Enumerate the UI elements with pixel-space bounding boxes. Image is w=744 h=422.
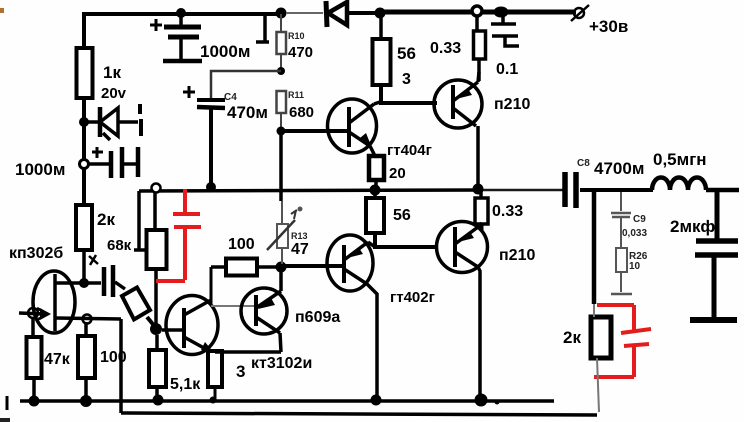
svg-text:п210: п210	[494, 96, 530, 113]
wire п609а base	[211, 305, 256, 307]
svg-text:10: 10	[629, 261, 641, 272]
transistor Q2 кт3102и	[162, 296, 218, 355]
node circle rail left	[152, 184, 161, 193]
svg-text:0,033: 0,033	[622, 228, 647, 239]
inductor L1 0,5мгн	[652, 178, 706, 191]
node dot gnd 3	[210, 397, 217, 404]
svg-text:R13: R13	[291, 231, 308, 241]
svg-text:100: 100	[228, 236, 255, 253]
wire 2к bottom to feedback	[597, 358, 599, 412]
wire 68k top	[153, 192, 157, 231]
wire R1 to node	[82, 98, 86, 124]
svg-text:4700м: 4700м	[594, 159, 644, 178]
node dot R10/R11	[277, 67, 285, 75]
capacitor red C bypass 68к	[156, 189, 201, 281]
capacitor C10 2мкф	[690, 190, 738, 320]
svg-text:0.33: 0.33	[492, 203, 523, 220]
node dot C4 rail	[206, 182, 216, 192]
svg-text:п609а: п609а	[295, 309, 340, 326]
node dot gnd 5,1к	[153, 395, 164, 406]
svg-text:1к: 1к	[103, 63, 121, 82]
wire п609а collector to 3	[215, 350, 281, 354]
svg-text:C4: C4	[224, 92, 237, 103]
diode VD1 zener	[84, 104, 141, 140]
node dot p210 rail	[473, 184, 484, 195]
node circle source	[83, 315, 92, 324]
resistor R11 680	[277, 91, 287, 131]
svg-text:20v: 20v	[101, 85, 127, 102]
svg-text:R10: R10	[288, 31, 305, 41]
svg-text:47к: 47к	[44, 351, 71, 368]
wire top rail left	[84, 14, 281, 48]
svg-text:56: 56	[393, 207, 411, 224]
mid rail	[139, 190, 483, 191]
resistor 2к output	[591, 317, 611, 358]
wire 56 to collector node	[381, 85, 437, 103]
node dot R10 top	[276, 8, 287, 19]
resistor R4 20	[369, 156, 384, 180]
resistor R2 2к	[76, 205, 92, 250]
svg-text:1000м: 1000м	[15, 160, 65, 179]
wire 20 to rail	[374, 180, 378, 190]
resistor R9 slanted	[122, 288, 156, 329]
terminal +30в	[571, 5, 589, 21]
resistor R5 0.33 upper	[475, 16, 479, 31]
wire R2 to drain node	[82, 250, 86, 284]
svg-text:0.1: 0.1	[496, 61, 518, 78]
transistor Q5 п210 upper	[434, 72, 482, 188]
svg-text:3: 3	[402, 71, 411, 88]
resistor R6 68к	[147, 230, 167, 269]
svg-text:470: 470	[288, 44, 313, 61]
resistor 56 lower	[373, 190, 377, 198]
node dot gnd п210	[475, 394, 488, 407]
resistor R10 470	[277, 14, 287, 71]
node dot bias	[276, 262, 287, 273]
resistor 0.33 lower	[479, 190, 483, 198]
transistor Q6 гт402г	[327, 235, 377, 399]
svg-text:гт402г: гт402г	[390, 289, 435, 306]
wire bias to Q6 base	[281, 264, 344, 268]
svg-text:R11: R11	[288, 90, 304, 100]
wire feedback source	[119, 319, 123, 413]
resistor R7 47к	[31, 318, 35, 337]
node dot 20 rail	[370, 185, 381, 196]
capacitor C6 coupling	[84, 255, 125, 297]
node dot gnd 100	[80, 395, 92, 407]
node dot R11 bottom	[277, 127, 286, 136]
node dot base кт3102и	[150, 323, 162, 335]
ground rail	[20, 399, 554, 403]
transistor Q1 кп302б FET	[19, 271, 121, 333]
svg-text:2к: 2к	[563, 328, 581, 347]
resistor R15 5,1к	[155, 335, 159, 350]
capacitor C2 1000м	[88, 147, 138, 178]
wire node to C2 node	[82, 122, 86, 164]
node circle 0.33 top	[472, 6, 482, 16]
resistor R14 3	[208, 351, 222, 387]
wire 68k bottom	[154, 269, 158, 326]
transistor Q7 п210 lower	[437, 222, 488, 400]
capacitor C1 1000м top	[150, 14, 202, 61]
svg-text:47: 47	[291, 241, 309, 258]
capacitor C9 0,033	[611, 192, 631, 248]
transistor Q4 п609а	[241, 271, 287, 352]
stub capacitor mark	[256, 14, 269, 42]
wire bootstrap to C4	[211, 71, 281, 99]
svg-text:5,1к: 5,1к	[170, 376, 201, 393]
svg-text:0.33: 0.33	[430, 40, 461, 57]
wire C2 node to R2	[82, 168, 86, 206]
wire L1 right	[706, 188, 739, 193]
node dot D1	[79, 117, 89, 127]
node dot C1	[176, 8, 186, 18]
svg-text:кт3102и: кт3102и	[251, 355, 312, 372]
node circle C2	[80, 160, 89, 169]
wire R11 node down across rail	[279, 131, 283, 201]
resistor R3 56/3 upper	[379, 16, 383, 39]
svg-text:0,5мгн: 0,5мгн	[653, 150, 707, 169]
svg-text:2к: 2к	[97, 210, 115, 229]
svg-text:C8: C8	[577, 158, 590, 169]
wire top rail right	[380, 10, 576, 15]
node dot drain	[79, 278, 89, 288]
svg-text:56: 56	[397, 44, 416, 63]
svg-text:C9: C9	[633, 214, 646, 225]
capacitor C5 0.1	[491, 16, 519, 46]
wire base Q3	[281, 129, 349, 133]
node dot gnd гт402г	[371, 395, 382, 406]
resistor R12 100 bias	[226, 259, 257, 276]
wire 68k left branch	[134, 191, 146, 250]
svg-text:3: 3	[236, 362, 245, 381]
resistor R8 100	[84, 322, 88, 336]
red thermistor bypass output 2к	[594, 305, 651, 377]
wire collector кт3102и up	[210, 267, 213, 305]
svg-text:100: 100	[100, 349, 127, 366]
thermistor R13 47	[267, 208, 302, 267]
svg-text:гт404г: гт404г	[387, 142, 432, 159]
node dot top rail	[375, 8, 386, 19]
resistor R26 10	[611, 248, 632, 294]
capacitor C8 4700м	[565, 172, 653, 208]
resistor R1 1к	[77, 48, 93, 98]
corner mark bottom left	[0, 418, 10, 422]
svg-text:кп302б: кп302б	[9, 245, 63, 262]
node dot 0.1 top	[494, 7, 509, 18]
gate arrow	[40, 308, 51, 320]
svg-text:п210: п210	[499, 247, 535, 264]
edge mark left	[6, 396, 9, 410]
feedback rail bottom	[121, 413, 597, 415]
wire 0.33 to emitter	[477, 59, 481, 81]
diode VD2 top	[286, 1, 376, 27]
svg-text:+30в: +30в	[589, 17, 628, 36]
svg-text:1000м: 1000м	[200, 42, 250, 61]
capacitor C4 470м	[183, 86, 225, 108]
node circle gate	[28, 308, 38, 318]
svg-text:20: 20	[389, 165, 406, 182]
svg-text:470м: 470м	[227, 103, 268, 122]
svg-text:680: 680	[289, 104, 314, 121]
wire C4 to mid rail	[209, 108, 213, 188]
svg-text:2мкф: 2мкф	[670, 217, 715, 236]
transistor Q3 гт404г	[328, 99, 381, 156]
wire output down	[592, 190, 597, 304]
svg-text:68к: 68к	[107, 237, 132, 254]
node dot gnd 47к	[29, 396, 40, 407]
